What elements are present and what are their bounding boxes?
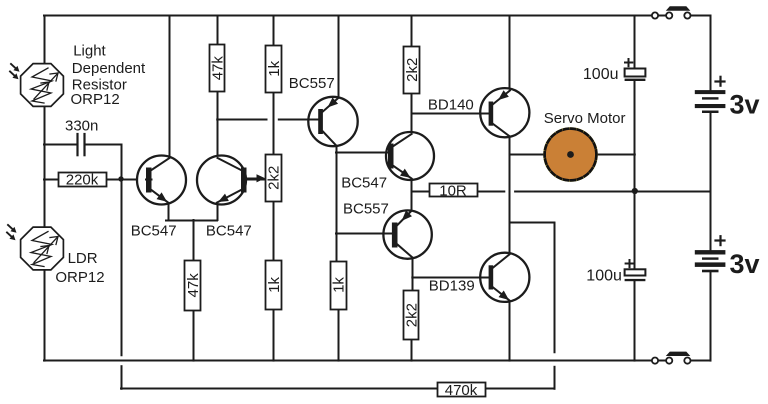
battery BT2 3v xyxy=(695,236,726,272)
svg-text:10R: 10R xyxy=(439,182,467,199)
svg-text:BD139: BD139 xyxy=(429,278,475,295)
transistor Q2 BC547 xyxy=(197,156,278,205)
wire to BD140 base xyxy=(412,113,489,115)
wire right battery rail upper xyxy=(710,16,712,91)
resistor R10 10R xyxy=(430,182,478,199)
wire smoothing line mid xyxy=(634,81,636,269)
wire pot to 1k lower xyxy=(273,202,275,261)
wire left rail top xyxy=(44,16,46,63)
svg-text:Light: Light xyxy=(73,42,106,59)
svg-text:3v: 3v xyxy=(730,249,760,279)
capacitor C1 330n xyxy=(65,118,98,156)
label BT2 xyxy=(730,249,760,279)
svg-text:47k: 47k xyxy=(185,273,202,298)
switch SW2 bottom xyxy=(652,352,691,364)
resistor R1 220k xyxy=(59,172,107,189)
wire output to battery tap xyxy=(635,191,711,193)
label Q3 xyxy=(289,75,335,92)
svg-text:ORP12: ORP12 xyxy=(55,269,104,286)
wire feedback top run xyxy=(510,222,555,224)
wire bottom rail right of switch xyxy=(691,360,711,362)
wire BC557 collector bus xyxy=(336,146,338,261)
svg-text:220k: 220k xyxy=(66,172,99,189)
label LDR2 xyxy=(55,250,104,286)
switch SW1 top xyxy=(652,6,691,18)
svg-text:BC547: BC547 xyxy=(131,222,177,239)
transistor Q4 BC547 xyxy=(336,132,434,180)
wire 47k bottom to Q2 collector xyxy=(217,92,219,158)
svg-text:ORP12: ORP12 xyxy=(71,91,120,108)
wire feedback drop x=121 xyxy=(121,179,123,389)
svg-text:1k: 1k xyxy=(266,276,283,292)
transistor Q3 BC557 xyxy=(279,97,358,146)
wire emitter resistor drop xyxy=(193,220,195,261)
resistor R7 1k xyxy=(331,262,348,310)
svg-text:3v: 3v xyxy=(730,89,760,119)
battery BT1 3v xyxy=(695,77,726,113)
label Q5 xyxy=(343,201,389,218)
label Q4 xyxy=(341,175,387,192)
wire to BC547 base xyxy=(337,152,389,154)
svg-text:47k: 47k xyxy=(209,56,226,81)
wire Q1 collector to rail xyxy=(169,16,171,158)
node B output junction xyxy=(632,188,638,194)
wire left rail bottom xyxy=(44,272,46,361)
resistor R5 47k xyxy=(185,261,203,311)
wire 47k emitter to rail xyxy=(193,310,195,360)
wire between batteries xyxy=(710,113,712,250)
wiper arrow Q2 base to pot xyxy=(247,174,266,182)
svg-text:330n: 330n xyxy=(65,118,98,135)
label LDR1 xyxy=(71,42,147,108)
wire 1k lower to rail xyxy=(273,309,275,361)
label servo motor xyxy=(544,110,626,127)
svg-text:BC557: BC557 xyxy=(343,201,389,218)
svg-text:1k: 1k xyxy=(331,277,348,293)
wire 10R right xyxy=(477,191,635,193)
wire BD139 emitter to rail xyxy=(509,301,511,361)
transistor Q7 BD139 xyxy=(430,253,529,302)
label Q2 xyxy=(206,222,252,239)
wire to BD139 base xyxy=(412,277,488,279)
svg-text:2k2: 2k2 xyxy=(404,58,421,82)
svg-text:1k: 1k xyxy=(266,60,283,76)
wire base feed to BC557 xyxy=(217,119,318,121)
wire Q2 emitter xyxy=(217,203,219,221)
wire servo left xyxy=(510,154,545,156)
LDR LDR1 ORP12 xyxy=(21,64,64,107)
node A input junction xyxy=(118,176,123,181)
svg-text:Dependent: Dependent xyxy=(72,60,146,77)
wire to BC557 base xyxy=(337,233,392,235)
wire emitter junction xyxy=(166,220,217,222)
servo motor M1 xyxy=(545,129,597,181)
wire feedback bottom run xyxy=(121,388,554,390)
wire Q1 emitter xyxy=(168,203,170,221)
wire Q5 collector drop xyxy=(412,257,414,290)
svg-text:BC547: BC547 xyxy=(206,222,252,239)
wire 1k to pot xyxy=(273,92,275,154)
wire bottom rail xyxy=(44,360,666,362)
capacitor C2 100u xyxy=(583,59,645,83)
wire 2k2 to Q4 collector xyxy=(411,93,413,134)
svg-text:BD140: BD140 xyxy=(428,96,474,113)
capacitor C3 100u xyxy=(586,260,645,285)
label Q6 xyxy=(428,96,474,113)
svg-text:2k2: 2k2 xyxy=(404,303,421,327)
wire 330n branch xyxy=(44,145,122,180)
wire smoothing line bottom xyxy=(634,281,636,360)
resistor R6 1k xyxy=(266,261,283,310)
wire 1k load to rail xyxy=(338,309,340,361)
wire 10R left xyxy=(412,191,429,193)
label BT1 xyxy=(730,89,760,119)
wire 2k2 lower to rail xyxy=(411,340,413,361)
svg-text:2k2: 2k2 xyxy=(265,166,282,190)
svg-text:100u: 100u xyxy=(583,66,619,83)
wire left rail middle xyxy=(44,108,46,226)
wire BC557 emitter to rail xyxy=(338,16,340,98)
wire Q5 emitter xyxy=(411,191,413,211)
light arrows into LDR1 xyxy=(10,64,20,79)
wire top positive rail xyxy=(44,15,666,17)
wire Q4 emitter xyxy=(411,179,413,192)
wire BD collector bus xyxy=(509,137,511,255)
resistor R3 1k xyxy=(266,46,283,93)
potentiometer R4 2k2 xyxy=(265,155,282,202)
svg-text:470k: 470k xyxy=(445,382,478,399)
svg-text:BC557: BC557 xyxy=(289,75,335,92)
svg-text:BC547: BC547 xyxy=(341,175,387,192)
wire 1k top upper xyxy=(273,16,275,46)
svg-text:100u: 100u xyxy=(586,268,622,285)
svg-text:LDR: LDR xyxy=(68,250,98,267)
resistor R11 470k xyxy=(438,382,486,399)
resistor R8 2k2 xyxy=(404,47,421,94)
wire 2k2 top upper xyxy=(411,16,413,47)
wire BD140 emitter to rail xyxy=(509,16,511,91)
wire smoothing line top xyxy=(634,16,636,69)
LDR LDR2 ORP12 xyxy=(21,227,64,270)
label Q1 xyxy=(131,222,177,239)
wire feedback riser x=554 xyxy=(554,223,556,389)
wire top rail right of switch xyxy=(691,15,711,17)
wire servo right xyxy=(596,154,634,156)
transistor Q5 BC557 xyxy=(336,210,432,258)
resistor R9 2k2 xyxy=(404,291,421,340)
wire 47k top upper xyxy=(217,16,219,45)
light arrows into LDR2 xyxy=(7,225,17,240)
svg-text:Servo Motor: Servo Motor xyxy=(544,110,626,127)
resistor R2 47k xyxy=(209,45,226,92)
label Q7 xyxy=(429,278,475,295)
transistor Q6 BD140 xyxy=(430,88,529,137)
wire right battery rail lower xyxy=(710,273,712,361)
transistor Q1 BC547 xyxy=(137,156,186,205)
wire 220k branch xyxy=(44,179,146,181)
